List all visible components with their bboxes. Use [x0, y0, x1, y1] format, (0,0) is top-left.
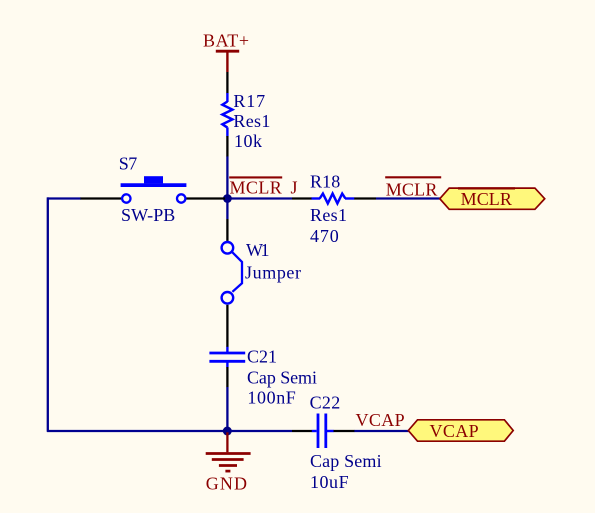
svg-text:Res1: Res1	[310, 205, 347, 225]
svg-text:Jumper: Jumper	[245, 263, 301, 283]
net label MCLR_J	[229, 177, 297, 197]
svg-text:10k: 10k	[234, 131, 262, 151]
svg-text:C22: C22	[310, 393, 341, 413]
svg-text:100nF: 100nF	[247, 388, 295, 408]
wire	[226, 156, 228, 198]
wire	[226, 387, 228, 431]
wire	[47, 197, 49, 431]
svg-text:Cap Semi: Cap Semi	[247, 368, 317, 388]
svg-text:S7: S7	[119, 154, 138, 174]
svg-text:MCLR: MCLR	[461, 189, 512, 209]
port VCAP	[408, 420, 513, 441]
wire	[227, 430, 292, 432]
svg-text:GND: GND	[206, 473, 247, 493]
wire	[47, 430, 227, 432]
power symbol BAT+	[203, 31, 249, 73]
wire	[227, 197, 292, 199]
jumper W1	[222, 219, 301, 347]
svg-text:MCLR: MCLR	[230, 178, 282, 198]
net label MCLR	[385, 177, 441, 199]
switch S7	[80, 154, 225, 226]
svg-text:J: J	[291, 178, 298, 198]
capacitor C22	[292, 393, 382, 493]
junction	[223, 194, 232, 203]
svg-text:10uF: 10uF	[310, 472, 349, 492]
junction	[223, 427, 232, 436]
svg-text:VCAP: VCAP	[356, 410, 405, 430]
svg-text:MCLR: MCLR	[386, 179, 438, 199]
svg-text:R17: R17	[233, 91, 265, 111]
capacitor C21	[209, 347, 317, 408]
svg-text:C21: C21	[247, 347, 277, 367]
wire	[376, 197, 440, 199]
svg-text:SW-PB: SW-PB	[121, 205, 175, 225]
svg-text:R18: R18	[310, 172, 340, 192]
svg-text:Cap Semi: Cap Semi	[310, 451, 382, 471]
svg-text:BAT+: BAT+	[203, 31, 249, 51]
resistor R18	[292, 172, 376, 247]
ground GND	[206, 432, 251, 493]
svg-text:W1: W1	[246, 240, 270, 260]
wire	[354, 430, 408, 432]
wire	[226, 199, 228, 220]
port MCLR	[440, 188, 545, 209]
wire	[47, 197, 80, 199]
svg-text:VCAP: VCAP	[430, 421, 479, 441]
resistor R17	[222, 72, 270, 157]
svg-text:Res1: Res1	[233, 111, 270, 131]
svg-text:470: 470	[310, 226, 339, 246]
